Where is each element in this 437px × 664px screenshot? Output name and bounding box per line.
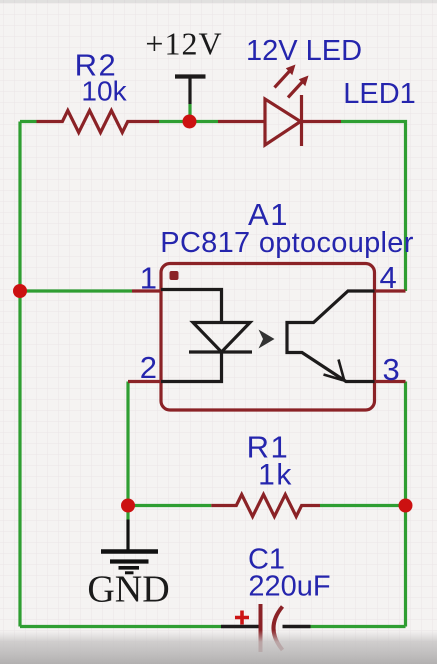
- svg-text:1k: 1k: [258, 459, 293, 492]
- svg-text:1: 1: [140, 261, 157, 296]
- svg-text:PC817 optocoupler: PC817 optocoupler: [160, 227, 413, 259]
- svg-text:LED1: LED1: [343, 78, 416, 110]
- svg-text:2: 2: [140, 350, 157, 385]
- svg-text:220uF: 220uF: [248, 571, 330, 603]
- svg-text:4: 4: [380, 260, 397, 295]
- svg-text:+12V: +12V: [145, 26, 222, 62]
- svg-text:10k: 10k: [81, 76, 127, 107]
- svg-text:3: 3: [383, 352, 400, 387]
- svg-text:12V LED: 12V LED: [246, 35, 362, 67]
- svg-text:GND: GND: [87, 569, 169, 611]
